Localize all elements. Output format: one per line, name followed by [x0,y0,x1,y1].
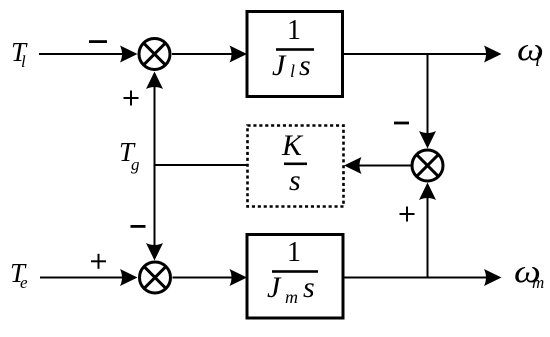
plus sign on Te input [91,254,106,269]
svg-text:l: l [290,61,295,81]
svg-text:m: m [532,273,544,292]
arrowhead into S2 [120,269,138,286]
wire Te to S2 [40,277,124,279]
svg-text:l: l [21,52,26,71]
block B2 K/s dashed [248,126,344,207]
wire B3 to omega_m output [343,277,487,279]
svg-text:1: 1 [287,15,301,46]
svg-text:1: 1 [287,237,301,268]
node omega_m label [514,252,544,292]
svg-text:K: K [281,129,304,162]
summing junction S3 [412,150,443,181]
wire S1 to block B1 [172,53,233,55]
svg-text:m: m [285,287,298,307]
wire branch up from omega_m line to S3 [427,197,429,278]
summing junction S1 [139,39,170,70]
block B3 1/(Jm s) [247,235,343,319]
wire branch down from omega_l line to S3 [427,54,429,134]
arrowhead into S2 top [146,243,163,261]
svg-text:e: e [20,273,28,292]
node Te label [10,258,28,292]
node omega_l label [517,30,544,71]
wire trunk vertical Tg [154,85,156,246]
arrowhead into S3 bottom [419,183,436,201]
node Tl label [11,37,28,71]
minus sign on Tl input [89,40,107,43]
arrowhead omega_l [484,46,502,63]
wire Tl to summing junction S1 [39,53,124,55]
svg-text:J: J [272,49,287,82]
wire B1 to omega_l output [343,53,488,55]
minus sign on S3 top input [394,122,409,125]
svg-text:l: l [535,50,540,71]
arrowhead into B2 right side [344,157,362,174]
svg-text:s: s [289,164,301,197]
arrowhead into S1 [120,46,138,63]
plus sign on S1 bottom input [124,91,139,106]
svg-text:s: s [303,271,315,304]
block B1 1/(Jl s) [247,12,343,97]
wire S3 to block B2 [358,165,411,167]
svg-text:s: s [299,49,311,82]
wire B2 to trunk node Tg [155,164,248,166]
minus sign on S2 top input [131,225,146,228]
arrowhead into B3 [230,269,248,286]
arrowhead omega_m [484,269,502,286]
arrowhead into S1 bottom [146,72,163,90]
plus sign on S3 bottom input [400,207,415,222]
node Tg label [119,137,140,174]
svg-text:g: g [131,155,140,174]
svg-text:J: J [267,271,282,304]
arrowhead into B1 [230,46,248,63]
summing junction S2 [140,262,171,293]
arrowhead into S3 top [419,131,436,149]
wire S2 to block B3 [173,277,234,279]
